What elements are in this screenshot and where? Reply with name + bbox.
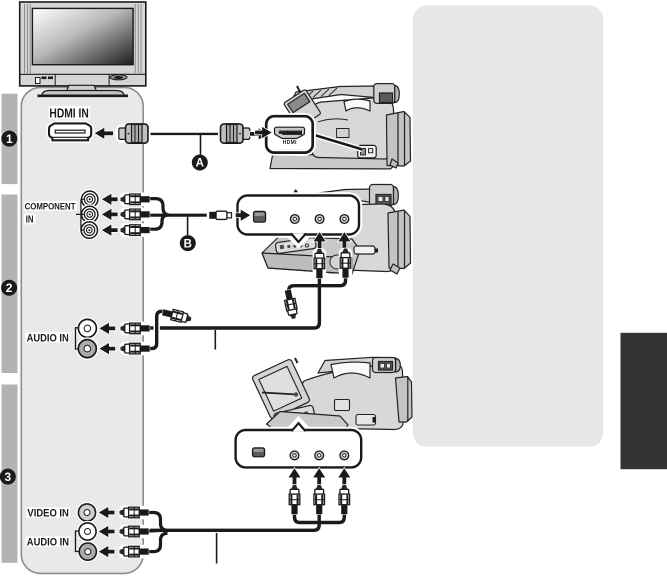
arrow into AV connector 2 xyxy=(236,210,251,221)
audio jack L section3 xyxy=(79,523,96,540)
component jack Pb xyxy=(82,206,98,222)
audio cable R panel side xyxy=(150,311,165,348)
cam1 strap lug xyxy=(390,159,398,168)
step circle 3 xyxy=(0,469,16,485)
cam1 base plate xyxy=(270,153,397,169)
arrow into audio L xyxy=(100,323,116,334)
cam2 body xyxy=(310,204,396,272)
cam3 LCD panel xyxy=(252,359,311,420)
up plug into box3 jack3 xyxy=(338,484,352,514)
svg-text:VIDEO IN: VIDEO IN xyxy=(27,508,69,520)
cam2 strap lug xyxy=(390,264,400,274)
box2 jack 3 xyxy=(340,215,349,224)
cam1 handle xyxy=(292,86,375,101)
loose plug panel side xyxy=(161,306,194,327)
audio jack R section3 xyxy=(79,543,96,560)
audio bracket section3 xyxy=(76,531,79,552)
AV cable section3 main (casing) xyxy=(150,512,319,530)
AV cable section3 U branch xyxy=(295,510,345,523)
up plug into jack3 xyxy=(339,248,353,278)
arrow into HDMI callout xyxy=(255,127,272,138)
AV multi connector 2 xyxy=(253,211,265,222)
cam3 body xyxy=(296,364,404,430)
svg-text:3: 3 xyxy=(4,470,11,484)
svg-text:B: B xyxy=(184,238,192,250)
svg-text:HDMI: HDMI xyxy=(283,140,298,146)
component jack bracket xyxy=(76,199,85,230)
TV stand xyxy=(38,85,129,96)
camcorder 1 xyxy=(270,84,411,169)
svg-text:HDMI IN: HDMI IN xyxy=(49,105,88,120)
HDMI callout leader line xyxy=(311,134,363,150)
TV rear jack panel xyxy=(21,87,143,573)
audio jack L (white) xyxy=(78,319,96,337)
mini plug xyxy=(208,210,233,221)
VIDEO IN label plate xyxy=(26,507,70,517)
component plug Y xyxy=(120,193,150,207)
HDMI receptacle icon xyxy=(275,127,305,138)
cam1 viewfinder xyxy=(374,84,395,104)
component jack Y xyxy=(82,191,98,207)
cam1 body seams xyxy=(318,119,348,122)
cable merge section3 xyxy=(148,513,168,552)
box3 jack 1 xyxy=(290,451,299,460)
audio plug L s3 xyxy=(119,525,149,539)
cam3 LCD knob xyxy=(295,358,298,363)
arrow into HDMI IN xyxy=(95,128,113,139)
TV set xyxy=(20,2,146,86)
section bar 3 xyxy=(2,385,18,563)
cam2 handle xyxy=(290,189,374,207)
COMPONENT IN label plate xyxy=(24,201,77,211)
step circle 2 xyxy=(1,280,17,296)
AV callout box 2 xyxy=(238,196,360,246)
AUDIO IN label plate (section3) xyxy=(26,536,71,546)
label tick section3 cable xyxy=(216,533,218,564)
cam2 bottom plate xyxy=(262,237,360,275)
up plug into box3 jack1 xyxy=(288,484,302,514)
arrow into audio R s3 xyxy=(99,546,115,557)
up arrow to box3 jack3 xyxy=(338,468,350,485)
audio plug R xyxy=(120,342,150,356)
up plug into box3 jack2 xyxy=(312,484,326,514)
arrow into camcorder HDMI xyxy=(250,128,268,139)
cam1 LCD flap xyxy=(283,89,321,127)
svg-text:AUDIO IN: AUDIO IN xyxy=(27,332,69,344)
HDMI plug right xyxy=(220,124,252,143)
cam1 arch under handle xyxy=(344,99,370,111)
up arrow to box2 jack2 xyxy=(314,232,326,250)
component plug Pb xyxy=(120,208,150,222)
component cable merge xyxy=(148,199,210,230)
box2 jack 1 xyxy=(290,215,299,224)
cam1 body xyxy=(312,97,395,159)
audio cable L panel-to-camera xyxy=(150,277,319,328)
cam3 lower plate xyxy=(356,415,376,426)
cam2 viewfinder xyxy=(370,185,394,206)
arrow into audio L s3 xyxy=(99,526,115,537)
component plug Pr xyxy=(120,223,150,237)
svg-text:IN: IN xyxy=(26,215,34,226)
cam2 marker triangle xyxy=(293,189,299,194)
video jack xyxy=(78,504,95,521)
up plug into jack2 xyxy=(313,248,327,278)
arrows into component jacks xyxy=(102,194,118,205)
audio plug R s3 xyxy=(119,545,149,559)
label tick B xyxy=(187,216,189,235)
label tick section2 cable xyxy=(214,330,216,350)
arrow into video jack xyxy=(99,507,115,518)
cam2 lens xyxy=(388,210,411,269)
up arrow to box2 jack3 xyxy=(338,232,350,250)
box2 jack 2 xyxy=(315,215,324,224)
audio jack R (red) xyxy=(78,340,96,358)
step circle 1 xyxy=(1,131,17,147)
cam3 stylus line xyxy=(262,393,297,395)
svg-text:COMPONENT: COMPONENT xyxy=(25,202,76,213)
label B xyxy=(180,235,196,251)
note box (right gray panel) xyxy=(413,5,604,446)
audio bracket section2 xyxy=(76,328,79,349)
HDMI IN port xyxy=(49,123,91,140)
cam3 viewfinder xyxy=(373,358,396,373)
svg-text:AUDIO IN: AUDIO IN xyxy=(27,537,69,549)
up arrow to box3 jack2 xyxy=(313,468,325,485)
label A xyxy=(192,155,208,171)
audio cable R camera side xyxy=(289,271,346,294)
cam2 battery plate xyxy=(354,246,375,254)
cam3 connector strip xyxy=(273,405,314,425)
video plug s3 xyxy=(119,506,149,520)
AUDIO IN label plate (section2) xyxy=(25,332,70,342)
svg-text:2: 2 xyxy=(6,281,13,295)
AV callout box 3 xyxy=(236,420,362,468)
section bar 1 xyxy=(2,94,18,184)
cam1 lens xyxy=(387,112,411,167)
camcorder 3 xyxy=(252,357,412,432)
AV cable section3 U branch (casing) xyxy=(295,510,345,523)
audio cable L panel-to-camera (casing) xyxy=(150,277,319,328)
section bar 2 xyxy=(2,195,18,374)
loose plug camera side xyxy=(281,288,301,321)
cam3 lens xyxy=(396,377,413,423)
svg-text:1: 1 xyxy=(6,132,13,146)
up arrow to box3 jack1 xyxy=(289,468,301,485)
camcorder 2 xyxy=(262,185,411,275)
box3 jack 2 xyxy=(315,451,324,460)
cam3 handle xyxy=(318,357,396,373)
HDMI cable xyxy=(145,133,224,135)
HDMI callout box xyxy=(266,116,313,152)
HDMI IN label plate xyxy=(49,106,90,119)
arrow into audio R xyxy=(100,343,116,354)
component jack Pr xyxy=(81,222,97,238)
AV cable section3 main xyxy=(150,512,319,530)
audio plug L xyxy=(120,322,150,336)
cam3 button plate xyxy=(335,400,350,411)
camcorder1 port door xyxy=(358,145,377,157)
right edge tab xyxy=(621,333,667,469)
HDMI plug left xyxy=(117,124,149,143)
AV multi connector 3 xyxy=(252,448,264,457)
cam3 arch under handle xyxy=(331,362,370,378)
cam2 grip curve xyxy=(317,269,347,273)
cam2 connector strip xyxy=(275,237,316,253)
cam3 bottom plate xyxy=(267,412,349,433)
audio cable R camera side (casing) xyxy=(289,271,346,294)
svg-text:A: A xyxy=(196,158,204,170)
label tick A xyxy=(200,135,202,155)
box3 jack 3 xyxy=(340,451,349,460)
